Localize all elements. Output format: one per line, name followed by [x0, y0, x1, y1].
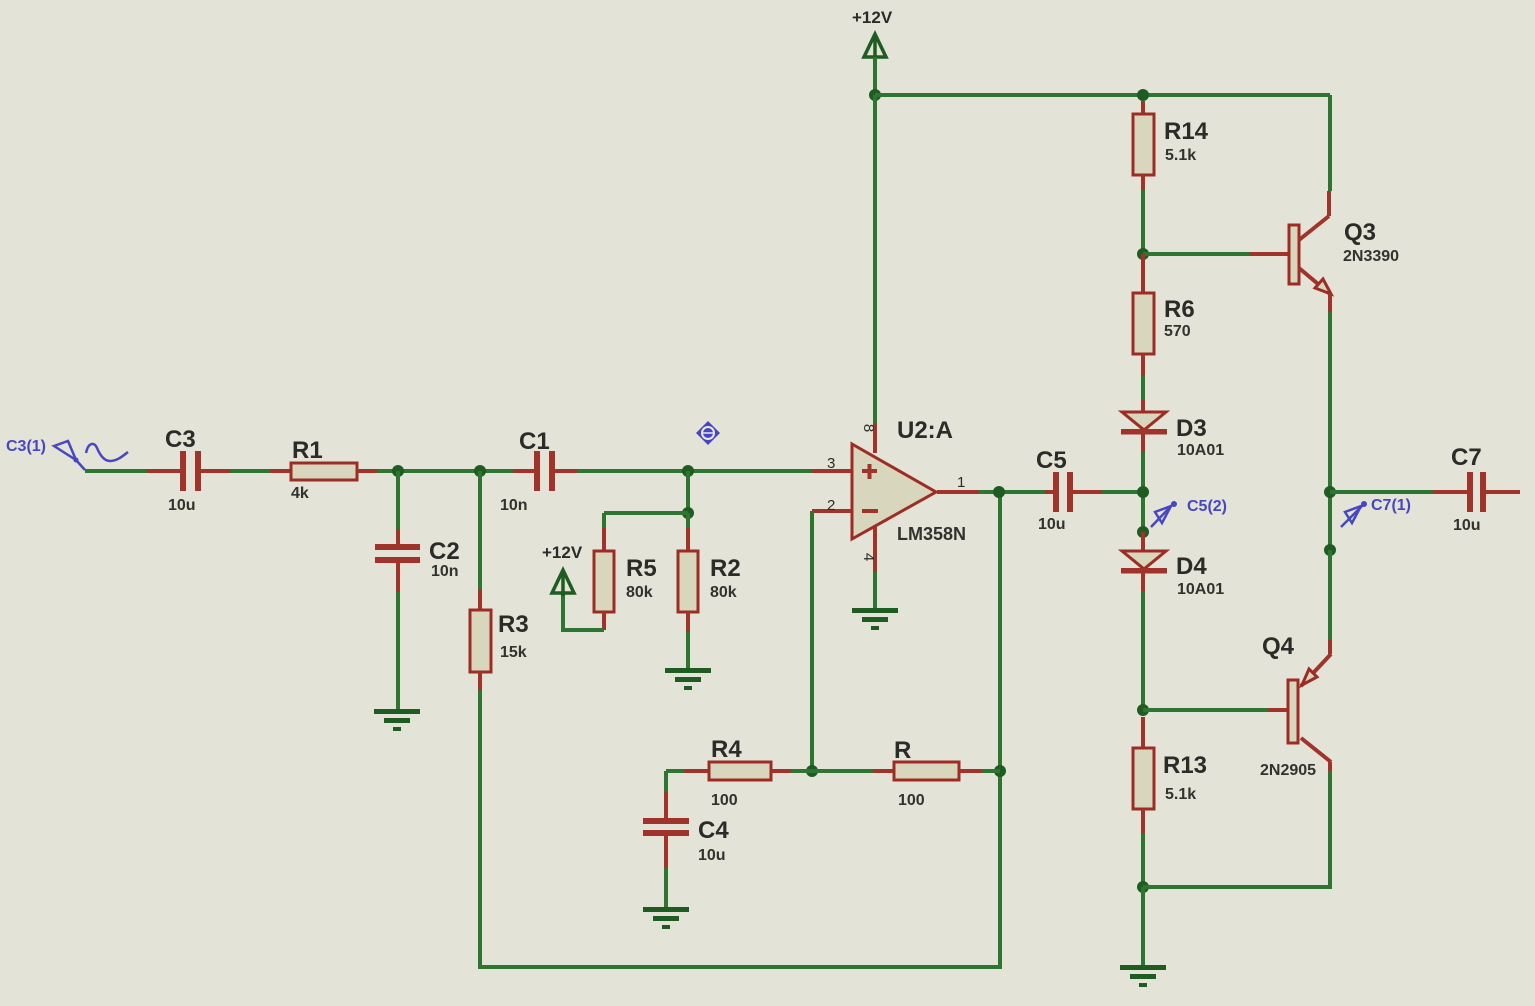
svg-text:D3: D3 — [1176, 415, 1207, 442]
svg-text:5.1k: 5.1k — [1165, 147, 1196, 164]
junction A — [392, 465, 404, 477]
svg-text:R4: R4 — [711, 736, 742, 763]
wire Q3 emitter down to output — [1328, 312, 1332, 550]
wire base node to Q4 — [1143, 708, 1268, 712]
wire junction B down to R3 — [478, 471, 482, 590]
svg-text:570: 570 — [1164, 323, 1191, 340]
svg-text:C5(2): C5(2) — [1187, 498, 1227, 515]
power +12V (top) — [864, 34, 886, 60]
transistor Q4 — [1288, 640, 1331, 762]
C5(2) pointer arrow — [1151, 501, 1177, 527]
op-amp U2:A — [812, 423, 936, 572]
wire junction A down to C2 — [396, 471, 400, 530]
junction C — [682, 465, 694, 477]
wire R3 bottom loop to output node — [480, 493, 1000, 967]
svg-text:2N3390: 2N3390 — [1343, 248, 1399, 265]
svg-text:R1: R1 — [292, 437, 323, 464]
svg-text:10A01: 10A01 — [1177, 581, 1224, 598]
svg-text:R3: R3 — [498, 611, 529, 638]
svg-text:10u: 10u — [1453, 517, 1481, 534]
transistor Q3 — [1289, 191, 1331, 312]
input probe arrow — [54, 441, 85, 470]
ground bottom right — [1120, 965, 1166, 987]
resistor R — [873, 762, 982, 780]
svg-text:R5: R5 — [626, 555, 657, 582]
ground under R2 — [665, 668, 711, 690]
diode D4 — [1121, 532, 1167, 591]
wire R4 to R — [791, 769, 873, 773]
junction J — [1137, 526, 1149, 538]
svg-text:R: R — [894, 737, 911, 764]
svg-text:R2: R2 — [710, 555, 741, 582]
svg-text:R6: R6 — [1164, 296, 1195, 323]
C7(1) pointer arrow — [1341, 501, 1367, 527]
svg-text:10u: 10u — [698, 847, 726, 864]
junction D — [682, 507, 694, 519]
wire D4 to Q4 base node — [1141, 591, 1145, 710]
resistor R13 — [1133, 717, 1154, 833]
svg-text:10n: 10n — [500, 497, 528, 514]
capacitor C3 — [147, 451, 230, 491]
junction M — [1324, 486, 1336, 498]
svg-text:10A01: 10A01 — [1177, 442, 1224, 459]
capacitor C4 — [643, 792, 689, 868]
svg-text:10u: 10u — [168, 497, 196, 514]
wire R14 to base node — [1141, 190, 1145, 254]
wire +12V down to op-amp pin 8 — [873, 95, 877, 423]
wire C4 corner to R4 — [666, 769, 684, 773]
svg-text:C3(1): C3(1) — [6, 438, 46, 455]
capacitor C7 — [1433, 472, 1520, 512]
wire down to R5 — [602, 513, 606, 528]
svg-text:8: 8 — [860, 424, 877, 432]
output pin 1 wire — [937, 490, 979, 494]
svg-text:15k: 15k — [500, 644, 527, 661]
wire top rail — [875, 93, 1330, 97]
svg-text:2N2905: 2N2905 — [1260, 762, 1316, 779]
wire junction C down — [686, 471, 690, 513]
resistor R5 — [594, 528, 614, 630]
wire top rail down to Q3 collector — [1328, 95, 1332, 191]
svg-text:C2: C2 — [429, 538, 460, 565]
wire R6 to D3 — [1141, 376, 1145, 400]
source sine squiggle — [86, 444, 128, 461]
diode D3 — [1121, 400, 1167, 452]
resistor R4 — [684, 762, 791, 780]
svg-text:2: 2 — [827, 497, 835, 514]
ground under op-amp — [873, 572, 877, 608]
resistor R3 — [470, 590, 491, 690]
wire C2 to ground — [396, 592, 400, 709]
svg-text:3: 3 — [827, 455, 835, 472]
resistor R1 — [270, 463, 377, 480]
junction under output — [994, 765, 1006, 777]
resistor R14 — [1133, 101, 1154, 190]
svg-text:C3: C3 — [165, 426, 196, 453]
svg-text:U2:A: U2:A — [897, 417, 953, 444]
wire C3 to R1 — [230, 469, 270, 473]
junction B — [474, 465, 486, 477]
feedback junction under pin2 — [806, 765, 818, 777]
resistor R2 — [678, 528, 698, 632]
svg-text:Q3: Q3 — [1344, 219, 1376, 246]
ground under C2 — [374, 709, 420, 731]
junction N — [1324, 544, 1336, 556]
junction K — [1137, 704, 1149, 716]
junction G — [1137, 89, 1149, 101]
wire C5 to diode node — [1102, 490, 1143, 494]
wire output node to C7 — [1330, 490, 1433, 494]
svg-text:4k: 4k — [291, 485, 309, 502]
svg-text:100: 100 — [711, 792, 738, 809]
ground under C4 — [643, 907, 689, 929]
wire op-amp pin 2 down to feedback — [810, 511, 814, 771]
svg-text:C5: C5 — [1036, 447, 1067, 474]
svg-text:80k: 80k — [626, 584, 653, 601]
wire corner down to C4 — [664, 771, 668, 792]
svg-text:10n: 10n — [431, 563, 459, 580]
wire R13 to bottom node — [1141, 833, 1145, 887]
junction L — [1137, 881, 1149, 893]
wire Q4 emitter up to output node — [1328, 550, 1332, 640]
wire +12V down to junction — [873, 57, 877, 95]
origin marker — [696, 421, 720, 445]
svg-text:R14: R14 — [1164, 118, 1209, 145]
svg-text:80k: 80k — [710, 584, 737, 601]
svg-text:C7: C7 — [1451, 444, 1482, 471]
svg-text:100: 100 — [898, 792, 925, 809]
svg-text:D4: D4 — [1176, 553, 1207, 580]
svg-text:Q4: Q4 — [1262, 633, 1295, 660]
svg-text:1: 1 — [957, 474, 965, 491]
wire R to output junction — [982, 769, 1000, 773]
junction E — [869, 89, 881, 101]
wire R2 to ground — [686, 632, 690, 668]
junction F output node — [993, 486, 1005, 498]
wire junction D down to R2 — [686, 513, 690, 528]
svg-text:+12V: +12V — [542, 543, 583, 562]
wire bottom node to Q4 collector — [1143, 771, 1330, 887]
wire bottom node to ground — [1141, 887, 1145, 965]
svg-text:R13: R13 — [1163, 752, 1207, 779]
wire R1 to C1 — [377, 469, 513, 473]
wire C4 to ground — [664, 868, 668, 907]
svg-text:LM358N: LM358N — [897, 524, 966, 544]
capacitor C5 — [1045, 472, 1102, 512]
svg-text:C1: C1 — [519, 428, 550, 455]
svg-text:4: 4 — [860, 553, 877, 561]
wire input to C3 — [85, 469, 147, 473]
wire R5 bottom to +12V arrow — [563, 593, 604, 630]
capacitor C1 — [513, 451, 577, 491]
wire base node to Q3 — [1143, 252, 1250, 256]
wire junction D to R5 column — [604, 511, 688, 515]
svg-text:+12V: +12V — [852, 8, 893, 27]
svg-text:C4: C4 — [698, 817, 729, 844]
wire D3 to mid node — [1141, 452, 1145, 532]
resistor R6 — [1133, 254, 1154, 376]
wire C1 to op-amp pin 3 — [577, 469, 812, 473]
svg-text:5.1k: 5.1k — [1165, 786, 1196, 803]
capacitor C2 — [375, 530, 420, 592]
junction I mid node — [1137, 486, 1149, 498]
junction H base node — [1137, 248, 1149, 260]
svg-text:C7(1): C7(1) — [1371, 497, 1411, 514]
power +12V (left) — [552, 570, 574, 596]
svg-text:10u: 10u — [1038, 516, 1066, 533]
